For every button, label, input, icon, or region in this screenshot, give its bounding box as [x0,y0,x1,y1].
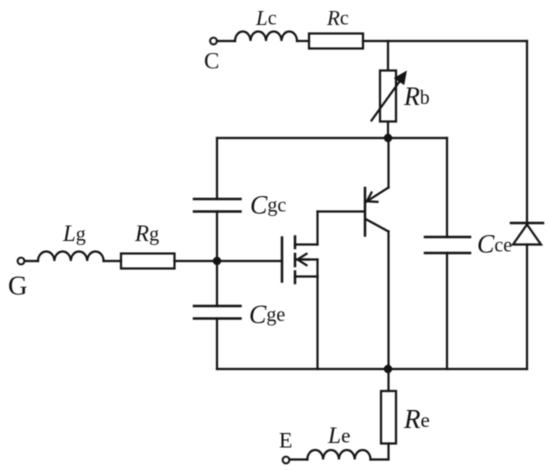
wire right branch [526,41,528,223]
wire to BJT base [318,210,365,212]
wire [526,245,528,370]
wire [175,260,283,262]
terminal G [18,258,25,265]
svg-text:Cgc: Cgc [250,191,286,220]
terminal E [283,457,290,464]
wire [446,253,448,369]
wire [25,260,39,262]
MOSFET M1 [282,237,318,284]
diode D1 [511,223,543,245]
transistor Q1 (PNP) [365,188,389,236]
svg-text:Lg: Lg [62,221,86,246]
capacitor Cge [194,306,241,319]
inductor Lg [38,251,104,261]
inductor Lc [235,32,297,41]
svg-text:C: C [204,49,219,74]
resistor Rc [309,34,363,49]
svg-text:Rc: Rc [326,6,349,30]
wire bottom rail [217,368,527,370]
wire [290,458,308,460]
svg-text:Le: Le [327,423,350,449]
capacitor Cgc [194,199,241,212]
wire [216,138,218,199]
node dot [384,365,392,373]
resistor Rb (variable) [380,71,396,122]
resistor Rg [121,254,175,269]
wire middle rail [217,137,447,139]
capacitor Cce [425,237,470,253]
node dot G branch [213,257,221,265]
wire [387,122,389,138]
wire collector down [387,232,389,370]
inductor Le [307,450,370,460]
wire [387,41,389,70]
wire drain up [316,212,318,245]
wire [217,40,235,42]
svg-text:E: E [279,428,292,453]
svg-text:Lc: Lc [255,6,277,30]
wire source down [316,277,318,370]
svg-text:Cce: Cce [477,230,512,259]
svg-text:G: G [8,271,28,301]
wire [216,319,218,370]
wire [216,212,218,307]
resistor Re [381,391,396,444]
wire [387,369,389,391]
wire [363,40,527,42]
terminal C [210,38,217,45]
node dot [384,134,392,142]
wire [371,444,389,460]
wire [297,40,309,42]
wire [104,260,122,262]
wire emitter up [387,138,389,188]
svg-text:Cge: Cge [249,300,285,329]
wire [446,138,448,237]
svg-text:Re: Re [403,404,430,434]
svg-text:Rb: Rb [403,82,430,111]
svg-text:Rg: Rg [134,221,159,246]
